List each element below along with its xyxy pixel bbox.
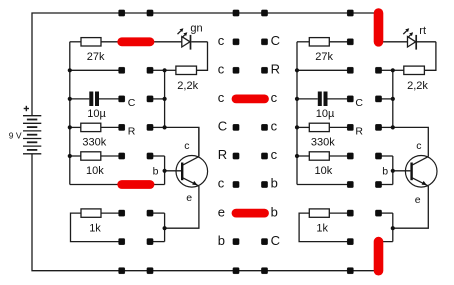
socket squares bottom supply: [119, 268, 354, 274]
resistor 1k (right): [309, 209, 329, 217]
svg-text:330k: 330k: [82, 137, 106, 149]
socket squares right matrix column F: [375, 67, 381, 216]
LED rt light arrows: [403, 31, 410, 38]
left rail: [69, 42, 71, 185]
capacitor 10µ (right) plates: [318, 92, 328, 107]
svg-text:2,2k: 2,2k: [407, 80, 428, 92]
wire jumper to LED rt: [375, 41, 408, 43]
wire row8 stub: [150, 241, 165, 243]
transistor Q1 (left): [176, 156, 208, 188]
socket squares top supply: [119, 10, 354, 16]
wire base vertical right: [392, 156, 394, 185]
resistor 10k (right) wires: [297, 155, 309, 157]
wire row8 stub right: [375, 241, 393, 243]
jumper red horizontal row6 left: [122, 180, 150, 189]
svg-text:b: b: [153, 166, 159, 178]
capacitor 10µ (right) wires: [297, 98, 318, 100]
wire emitter vertical to 1k rows: [164, 213, 166, 242]
wire row2 right rail to socket: [297, 69, 350, 71]
svg-text:rt: rt: [419, 25, 426, 37]
resistor 330k (left) wires: [70, 126, 81, 128]
resistor 1k (right) wires: [329, 212, 350, 214]
svg-text:27k: 27k: [315, 51, 333, 63]
node letters middle matrix right column: [271, 33, 280, 248]
wire 10k row stub to base right: [379, 155, 393, 157]
wire row3 stub: [150, 98, 165, 100]
jumper red horizontal row7 middle: [236, 209, 265, 218]
wire collector top right: [393, 127, 429, 156]
wire rail bottom right: [297, 184, 350, 186]
resistor 2,2k (right): [404, 66, 425, 74]
svg-text:27k: 27k: [87, 51, 105, 63]
svg-text:c: c: [218, 62, 225, 77]
socket squares right matrix column E: [347, 39, 353, 245]
svg-text:R: R: [271, 62, 280, 77]
resistor 2,2k (left): [176, 66, 197, 74]
wire row4 stub right: [379, 126, 393, 128]
wire 27k row right: [297, 41, 309, 43]
svg-text:1k: 1k: [89, 222, 101, 234]
resistor 10k (left) wires: [70, 155, 81, 157]
svg-text:330k: 330k: [311, 137, 335, 149]
svg-text:c: c: [184, 140, 189, 152]
svg-text:1k: 1k: [316, 222, 328, 234]
svg-text:b: b: [271, 176, 278, 191]
junction dots left: [68, 68, 167, 230]
wire 10k row stub to base: [150, 155, 165, 157]
wire junction vertical (2,2k to collector rows): [164, 70, 166, 127]
node letters middle matrix left column: [218, 33, 227, 248]
wire row3 stub right: [379, 98, 393, 100]
svg-text:C: C: [271, 233, 280, 248]
svg-text:R: R: [355, 125, 363, 137]
svg-text:c: c: [218, 33, 225, 48]
socket squares left matrix column A: [119, 67, 125, 245]
svg-text:C: C: [271, 33, 280, 48]
resistor 330k (right) wires: [297, 126, 309, 128]
battery B1 9V supply frame: top wire: [32, 13, 379, 116]
resistor 27k (right): [309, 38, 329, 46]
wire 2,2k left to junction: [165, 69, 176, 71]
svg-text:b: b: [271, 204, 278, 219]
svg-text:10k: 10k: [86, 165, 104, 177]
capacitor 10µ (left) wires: [70, 98, 90, 100]
wire row2 left rail to socket: [70, 69, 122, 71]
svg-text:c: c: [271, 147, 278, 162]
battery plus sign: [24, 106, 29, 111]
wire LED rt down to 2,2k: [424, 42, 436, 71]
junction dots right: [295, 68, 395, 230]
wire collector top: [165, 127, 199, 156]
battery B1 plates: [23, 116, 41, 154]
socket squares middle matrix column C: [233, 39, 239, 245]
jumper red vertical bottom right: [374, 242, 384, 271]
svg-text:c: c: [218, 90, 225, 105]
wire LED down to 2,2k: [197, 42, 208, 71]
resistor 10k (right): [309, 152, 329, 160]
svg-text:c: c: [218, 176, 225, 191]
jumper red horizontal row1 left: [122, 42, 265, 213]
svg-text:2,2k: 2,2k: [177, 80, 198, 92]
wire rail bottom to base row: [70, 184, 165, 186]
wire 2,2k right left side: [393, 69, 404, 71]
wire base to transistor Q2: [393, 170, 411, 172]
svg-text:b: b: [218, 233, 225, 248]
LED gn arrowheads: [180, 28, 188, 36]
svg-text:e: e: [218, 204, 225, 219]
svg-text:R: R: [218, 147, 227, 162]
LED rt (red) diode symbol: [408, 35, 436, 50]
LED gn light arrows: [178, 31, 185, 38]
wire emitter vertical right: [392, 213, 394, 242]
LED rt arrowheads: [405, 28, 413, 36]
wire emitter down and left: [165, 186, 199, 228]
resistor 1k (left): [81, 209, 101, 217]
svg-text:gn: gn: [190, 23, 202, 35]
wire 27k row left: [70, 41, 81, 43]
svg-text:C: C: [218, 119, 227, 134]
svg-text:10µ: 10µ: [87, 108, 106, 120]
svg-text:c: c: [416, 140, 421, 152]
wire row4 stub: [150, 126, 165, 128]
wire 27k right to socket: [329, 41, 350, 43]
resistor 1k (left) wires: [101, 212, 122, 214]
svg-text:c: c: [271, 90, 278, 105]
svg-text:9 V: 9 V: [9, 130, 22, 140]
wire collector vertical up: [198, 127, 200, 156]
LED gn (green) diode symbol: [182, 35, 208, 50]
right rail: [296, 42, 298, 185]
svg-text:c: c: [271, 119, 278, 134]
resistor 330k (right): [309, 123, 329, 131]
jumper red vertical top right: [374, 13, 384, 271]
socket squares middle matrix column D: [261, 39, 267, 245]
capacitor 10µ (left) plates: [89, 92, 99, 107]
wire row7 stub right: [379, 212, 393, 214]
svg-text:R: R: [128, 125, 136, 137]
wire socket F row2 stub: [379, 69, 393, 71]
wire emitter down and left right side: [393, 186, 429, 228]
svg-text:10µ: 10µ: [316, 108, 335, 120]
jumper red horizontal row3 middle: [236, 95, 265, 104]
socket squares left matrix column B: [147, 67, 153, 245]
wire 27k to LED: [101, 41, 182, 43]
svg-text:10k: 10k: [315, 165, 333, 177]
resistor 330k (left): [81, 123, 101, 131]
svg-text:C: C: [355, 97, 363, 109]
svg-text:C: C: [128, 97, 136, 109]
wire base to transistor Q1: [165, 170, 181, 172]
transistor Q2 (right): [405, 156, 437, 188]
svg-text:e: e: [186, 192, 192, 204]
resistor 27k (left): [81, 38, 101, 46]
svg-text:b: b: [382, 166, 388, 178]
wire bottom supply: [32, 154, 379, 271]
wire base vertical: [164, 156, 166, 185]
wire row6 stub to base right: [379, 184, 393, 186]
svg-text:e: e: [415, 194, 421, 206]
wire junction vertical right: [392, 70, 394, 127]
wire row7 stub: [150, 212, 165, 214]
wire socket B row2 stub: [150, 69, 165, 71]
resistor 10k (left): [81, 152, 101, 160]
